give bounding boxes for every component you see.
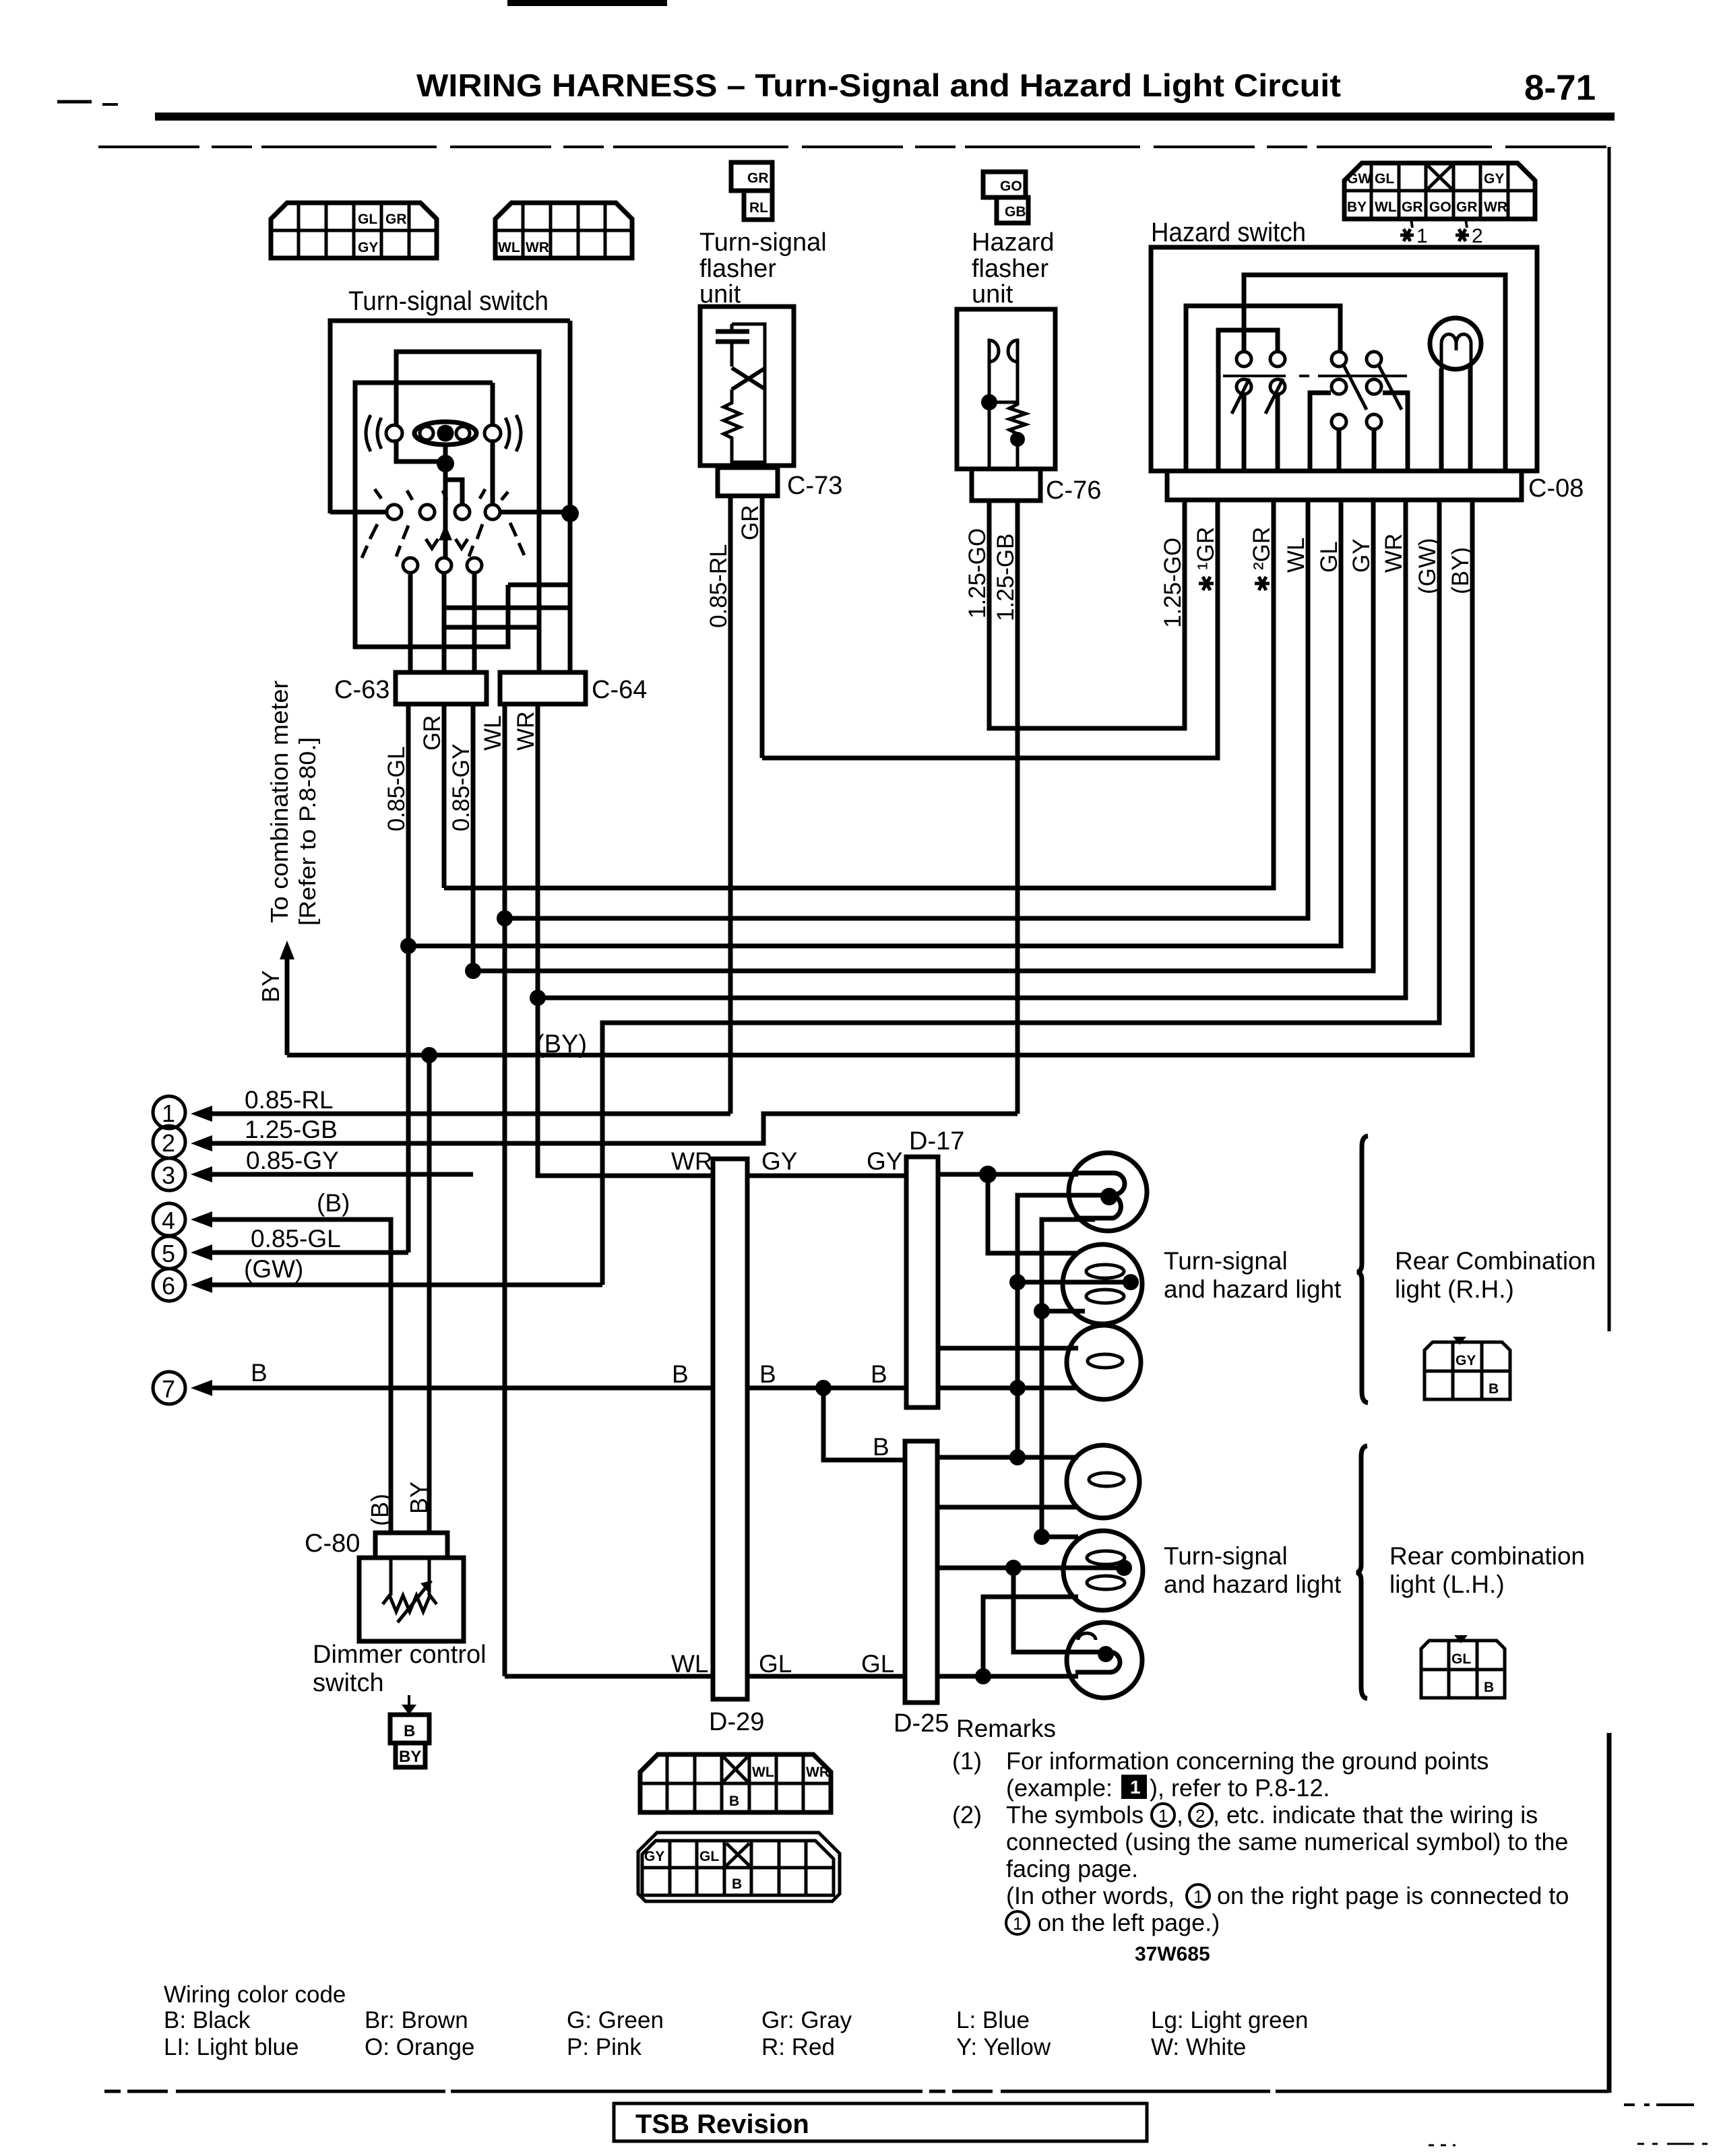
svg-text:(BY): (BY) — [536, 1030, 587, 1058]
node bulb4 chain — [1009, 1449, 1026, 1465]
diagram bottom dashed border — [104, 2090, 1609, 2093]
svg-text:GY: GY — [644, 1849, 664, 1864]
dimmer rheostat — [383, 1558, 437, 1622]
label GR — [419, 716, 445, 751]
svg-text:Turn-signal: Turn-signal — [1164, 1247, 1288, 1275]
bulb3 rear RH bottom — [1067, 1325, 1141, 1399]
svg-text:Turn-signal: Turn-signal — [1164, 1542, 1288, 1570]
svg-text:L: Blue: L: Blue — [956, 2007, 1030, 2033]
svg-text:(GW): (GW) — [1414, 538, 1441, 594]
svg-text:GY: GY — [358, 240, 378, 255]
wire WR bus — [538, 500, 1406, 998]
wire GY corner to D-17 — [538, 998, 906, 1176]
connector C-76 — [972, 469, 1101, 505]
svg-text:GL: GL — [861, 1650, 894, 1678]
switch rotor oval — [414, 422, 476, 445]
wire 1.25-GB to node2 — [191, 1114, 1018, 1151]
node GY branch — [979, 1166, 997, 1183]
svg-text:4: 4 — [162, 1207, 175, 1234]
label 1.25-GO left — [964, 528, 991, 619]
hazard flasher unit box — [957, 309, 1055, 469]
svg-text:1: 1 — [1130, 1777, 1141, 1798]
svg-text:B: B — [1489, 1381, 1499, 1397]
svg-text:unit: unit — [972, 280, 1013, 309]
label (BY) mid — [536, 1030, 587, 1058]
svg-text:C-73: C-73 — [787, 472, 842, 500]
node 7 — [153, 1372, 185, 1404]
connector grid D-29 pinout — [640, 1754, 831, 1812]
dimmer control switch box — [359, 1558, 464, 1641]
node bulb5 mid chain — [1005, 1560, 1022, 1576]
label rear combination RH — [1395, 1247, 1596, 1303]
label B node7 — [251, 1359, 268, 1387]
wire left rotor contact jog — [396, 439, 438, 462]
label GL right d29 — [759, 1650, 792, 1678]
svg-text:P: Pink: P: Pink — [567, 2034, 642, 2060]
label refer to p8-80 — [295, 737, 321, 926]
label GY c08 — [1348, 538, 1375, 573]
svg-text:(B): (B) — [366, 1494, 394, 1526]
wire 0.85-RL to node1 — [191, 1106, 730, 1122]
wire GY branch to bulb2 — [988, 1174, 1078, 1253]
wire B to node4 — [191, 1211, 391, 1533]
pin *1 leader — [1400, 219, 1428, 247]
connector grid C-64 pinout — [495, 203, 632, 258]
page number 8-71 — [1524, 68, 1596, 108]
hazard linkage dash line — [1223, 375, 1407, 377]
svg-text:(2): (2) — [952, 1801, 982, 1829]
svg-text:and hazard light: and hazard light — [1164, 1275, 1342, 1303]
svg-text:B: B — [729, 1794, 739, 1809]
svg-text:Rear Combination: Rear Combination — [1395, 1247, 1596, 1275]
flasher capacitor C — [716, 324, 749, 367]
wire 0.85-RL from C-73 — [728, 496, 733, 1114]
svg-text:6: 6 — [162, 1272, 175, 1300]
wire B to node7 — [191, 1380, 906, 1396]
connector grid RH light — [1425, 1337, 1510, 1399]
label WL c08 — [1283, 538, 1309, 573]
hazard flasher contact symbol — [989, 340, 1018, 362]
svg-text:facing page.: facing page. — [1006, 1855, 1138, 1882]
node 6 — [153, 1269, 185, 1301]
wire BY riser with arrow — [280, 941, 294, 1055]
label turn-signal and hazard light LH — [1164, 1542, 1342, 1598]
bulb2 rear RH mid — [1063, 1244, 1142, 1324]
svg-text:0.85-RL: 0.85-RL — [706, 544, 732, 628]
wire bulb4 low feed — [937, 1505, 1078, 1510]
svg-text:WIRING HARNESS – Turn-Signal a: WIRING HARNESS – Turn-Signal and Hazard … — [416, 67, 1341, 103]
svg-text:B: B — [732, 1876, 742, 1892]
svg-text:, etc. indicate that the wirin: , etc. indicate that the wiring is — [1213, 1801, 1538, 1829]
svg-text:G: Green: G: Green — [567, 2007, 664, 2033]
pin *2 leader — [1456, 219, 1483, 247]
wire 0.85-GY from C-63 — [471, 704, 476, 971]
wire GL bus — [408, 500, 1341, 946]
svg-text:[Refer to P.8-80.]: [Refer to P.8-80.] — [295, 737, 321, 926]
svg-text:GR: GR — [385, 212, 407, 227]
TSB revision box — [614, 2103, 1147, 2141]
label BY dimmer — [405, 1482, 433, 1514]
node WL bus — [497, 910, 513, 926]
svg-text:Dimmer control: Dimmer control — [313, 1641, 487, 1669]
node B ground chain — [1009, 1380, 1026, 1396]
label 0.85-GL node5 — [251, 1225, 341, 1253]
wire 1.25-GB from C-76 — [1015, 501, 1020, 1114]
svg-text:(B): (B) — [317, 1189, 350, 1217]
node GY bus — [465, 963, 481, 979]
wire cross link y868 — [508, 583, 570, 588]
svg-text:WL: WL — [752, 1765, 774, 1780]
node 1 — [153, 1096, 185, 1129]
label 1.25-GB left — [993, 534, 1019, 621]
svg-text:(In other words,: (In other words, — [1006, 1882, 1175, 1909]
svg-text:switch: switch — [313, 1669, 384, 1697]
node BY to dimmer — [421, 1047, 437, 1063]
svg-text:2: 2 — [1472, 225, 1483, 247]
svg-text:GR: GR — [747, 170, 769, 186]
label 0.85-RL node1 — [245, 1086, 334, 1114]
label WR c08 — [1381, 534, 1407, 573]
node hazard flasher lower — [1010, 432, 1025, 447]
svg-text:B: B — [873, 1433, 889, 1461]
wire GR from C-73 — [760, 496, 765, 758]
bulb6 rear LH bottom — [1067, 1622, 1142, 1698]
label GL left d25 — [861, 1650, 894, 1678]
svg-text:Y: Yellow: Y: Yellow — [956, 2034, 1051, 2060]
svg-text:C-80: C-80 — [305, 1529, 360, 1558]
connector D-25 bar — [894, 1441, 949, 1738]
wire WL into D-29 — [505, 1674, 905, 1679]
svg-text:B: B — [759, 1360, 776, 1388]
hazard right contacts — [1332, 352, 1381, 429]
hazard feed rail upper — [1244, 275, 1505, 471]
svg-text:GL: GL — [759, 1650, 792, 1678]
connector grid LH light — [1421, 1635, 1505, 1698]
svg-text:Br: Brown: Br: Brown — [365, 2007, 468, 2033]
remarks item 1 — [952, 1747, 1489, 1802]
title text — [416, 67, 1341, 103]
connector grid C-08 pinout — [1344, 163, 1535, 219]
wire bulb5 mid feed — [937, 1566, 1120, 1571]
hazard switch box — [1151, 247, 1537, 471]
svg-text:Rear combination: Rear combination — [1389, 1542, 1585, 1570]
bulb1 rear RH top — [1069, 1153, 1147, 1231]
svg-text:BY: BY — [257, 970, 284, 1003]
label (GW) node6 — [244, 1255, 303, 1283]
turn-signal switch inner box 2 — [355, 383, 508, 647]
svg-text:and hazard light: and hazard light — [1164, 1571, 1342, 1598]
svg-text:(example:: (example: — [1006, 1774, 1113, 1802]
svg-text:GL: GL — [1375, 171, 1394, 187]
svg-text:B: B — [871, 1360, 887, 1388]
page edge fragment top — [507, 0, 667, 6]
svg-text:W: White: W: White — [1151, 2034, 1246, 2060]
turn-signal switch outer box — [330, 321, 570, 513]
svg-text:connected (using the same nume: connected (using the same numerical symb… — [1006, 1828, 1568, 1856]
svg-text:WR: WR — [513, 711, 539, 751]
connector GO/GB pinout — [983, 172, 1028, 223]
svg-text:0.85-GL: 0.85-GL — [251, 1225, 341, 1253]
svg-text:1: 1 — [1013, 1913, 1022, 1934]
wire bulb5 low link — [983, 1597, 1078, 1676]
figure number 37W685 — [1135, 1943, 1210, 1965]
svg-text:(1): (1) — [952, 1747, 982, 1775]
rotor outer contact left — [366, 415, 402, 451]
label GY left d17 — [867, 1147, 902, 1175]
label WL d29 — [671, 1650, 709, 1678]
node 5 — [153, 1236, 185, 1269]
svg-text:flasher: flasher — [972, 255, 1049, 283]
svg-text:2: 2 — [1195, 1806, 1205, 1826]
wire GY bus — [473, 500, 1373, 971]
svg-text:GL: GL — [358, 212, 377, 227]
svg-text:GL: GL — [1316, 541, 1342, 573]
svg-text:BY: BY — [399, 1748, 421, 1766]
ground connector B — [390, 1715, 429, 1743]
wire bulb1 mid feed — [1018, 1195, 1105, 1457]
svg-text:TSB Revision: TSB Revision — [635, 2110, 809, 2139]
title rule — [155, 113, 1615, 121]
label WR d29 — [671, 1147, 713, 1175]
wire bulb2 low feed — [1042, 1309, 1085, 1314]
svg-text:Turn-signal switch: Turn-signal switch — [348, 286, 549, 316]
svg-text:Gr: Gray: Gr: Gray — [761, 2007, 852, 2033]
svg-text:For information concerning the: For information concerning the ground po… — [1006, 1747, 1489, 1775]
svg-text:0.85-GY: 0.85-GY — [246, 1147, 339, 1174]
bottom-right stray dashes — [1429, 2105, 1712, 2145]
top contact row circles — [387, 505, 500, 519]
svg-text:light (L.H.): light (L.H.) — [1389, 1571, 1505, 1598]
label rear combination LH — [1389, 1542, 1585, 1598]
wire GY D-17 to bulbs — [906, 1172, 1078, 1177]
svg-text:O: Orange: O: Orange — [365, 2034, 474, 2060]
bottom contact row circles — [403, 558, 482, 573]
wire arrow on rotor stem — [439, 524, 452, 540]
wire rotor right to contact4 — [491, 439, 495, 505]
connector GR/RL flasher pinout — [731, 162, 772, 220]
node 3 — [153, 1158, 185, 1191]
svg-text:7: 7 — [162, 1375, 175, 1403]
turn-signal switch label — [348, 286, 549, 316]
label BY c08 — [1447, 547, 1474, 594]
label WL — [480, 716, 506, 751]
svg-text:Hazard: Hazard — [972, 228, 1055, 257]
connector C-64 — [500, 672, 647, 704]
connector D-29 bar — [709, 1159, 764, 1736]
svg-text:R: Red: R: Red — [761, 2034, 835, 2060]
svg-text:on the left page.): on the left page.) — [1038, 1909, 1220, 1936]
hazard flasher unit label — [972, 228, 1055, 309]
svg-text:B: B — [672, 1360, 689, 1388]
bulb5 rear LH mid — [1063, 1531, 1143, 1610]
svg-text:D-25: D-25 — [894, 1709, 949, 1738]
svg-text:1.25-GO: 1.25-GO — [1160, 538, 1186, 628]
svg-text:1.25-GB: 1.25-GB — [993, 534, 1019, 621]
label turn-signal and hazard light RH — [1164, 1247, 1342, 1303]
diagram right border upper — [1608, 147, 1611, 1331]
label *2 GR — [1249, 527, 1275, 590]
node 2 — [153, 1126, 185, 1158]
wire 0.85-GL to node5 — [191, 1244, 408, 1261]
wire B down to D-25 — [823, 1388, 905, 1460]
wire 0.85-GL from C-63 — [406, 704, 411, 945]
svg-text:RL: RL — [749, 200, 768, 216]
svg-text:Turn-signal: Turn-signal — [699, 228, 827, 257]
bracket RH — [1357, 1136, 1368, 1403]
wire contact7 down — [472, 573, 477, 671]
svg-text:GR: GR — [737, 505, 763, 541]
svg-text:WL: WL — [1375, 199, 1397, 215]
connector grid D-25 pinout — [638, 1833, 840, 1901]
label BY riser — [257, 970, 284, 1003]
color code row 1 — [164, 2007, 1309, 2033]
wire right rotor contact drop — [491, 383, 495, 425]
label 1.25-GB node2 — [245, 1116, 338, 1143]
label B right d29 — [759, 1360, 776, 1388]
label B left d29 — [672, 1360, 689, 1388]
node bulb2 mid chain — [1009, 1274, 1026, 1290]
svg-text:8-71: 8-71 — [1524, 68, 1596, 108]
turn-signal flasher unit box — [700, 307, 794, 466]
svg-text:C-08: C-08 — [1528, 474, 1584, 503]
wiring color code heading — [164, 1981, 346, 2008]
flasher inner loop — [732, 324, 765, 462]
svg-text:B: B — [251, 1359, 268, 1387]
bracket LH — [1356, 1446, 1367, 1699]
wire *1 GR — [762, 500, 1218, 758]
svg-text:GY: GY — [1456, 1353, 1476, 1368]
svg-text:GL: GL — [699, 1849, 719, 1864]
svg-text:LI: Light blue: LI: Light blue — [164, 2034, 299, 2060]
svg-text:GW: GW — [1347, 171, 1371, 187]
label 0.85-RL — [706, 544, 732, 628]
remarks heading — [956, 1715, 1056, 1742]
ground marker arrow — [402, 1695, 416, 1715]
turn-signal switch inner box 1 — [396, 352, 539, 671]
svg-text:GB: GB — [1005, 204, 1026, 220]
svg-text:0.85-GY: 0.85-GY — [448, 744, 474, 831]
wire GW to node6 — [191, 1277, 602, 1293]
connector C-80 — [305, 1529, 447, 1558]
node bulb2 low chain — [1034, 1303, 1050, 1319]
svg-text:0.85-RL: 0.85-RL — [245, 1086, 334, 1114]
svg-text:C-76: C-76 — [1046, 476, 1101, 505]
wire bulb1 low feed — [1042, 1219, 1095, 1537]
label B d25 — [873, 1433, 889, 1461]
wire BY down to dimmer — [427, 1055, 432, 1533]
svg-text:BY: BY — [405, 1482, 433, 1514]
svg-text:B: B — [1484, 1680, 1494, 1695]
svg-text:GR: GR — [1402, 199, 1423, 215]
svg-text:3: 3 — [162, 1162, 175, 1189]
svg-text:), refer to P.8-12.: ), refer to P.8-12. — [1150, 1774, 1329, 1802]
svg-text:1: 1 — [1416, 225, 1428, 247]
hazard flasher resistor — [1009, 362, 1026, 469]
svg-text:¹GR: ¹GR — [1193, 527, 1219, 570]
svg-text:B: Black: B: Black — [164, 2007, 251, 2033]
contact blade dashes — [362, 489, 524, 558]
bulb4 rear LH top — [1067, 1445, 1139, 1518]
svg-text:GY: GY — [1348, 538, 1375, 573]
svg-text:GO: GO — [1429, 199, 1451, 215]
wire B d25 to bulb4 — [937, 1455, 1078, 1460]
svg-text:D-29: D-29 — [709, 1708, 764, 1736]
svg-text:37W685: 37W685 — [1135, 1943, 1210, 1965]
label GR flasher — [737, 505, 763, 541]
svg-text:GY: GY — [1484, 171, 1504, 187]
wire GL d25 to bulb6 — [937, 1674, 1078, 1679]
svg-text:0.85-GL: 0.85-GL — [383, 747, 410, 831]
svg-text:Remarks: Remarks — [956, 1715, 1056, 1742]
wire junction to contact3 — [445, 464, 462, 504]
label B left d17 — [871, 1360, 887, 1388]
wire left feed to contact1 — [330, 510, 387, 515]
node hazard flasher — [981, 394, 997, 410]
svg-text:WR: WR — [806, 1765, 830, 1780]
svg-text:GO: GO — [1000, 179, 1022, 194]
wire 0.85-GY to node3 — [191, 1166, 473, 1182]
label (B) dimmer — [366, 1494, 394, 1526]
node right rail junction — [561, 505, 579, 522]
label 0.85-GY node3 — [246, 1147, 339, 1174]
wire cross link y902 — [444, 606, 570, 610]
label to combination meter — [265, 680, 293, 923]
wire bulb6 mid feed — [1013, 1568, 1098, 1652]
wire GW bus — [602, 500, 1439, 1285]
turn-signal flasher unit label — [699, 228, 827, 309]
svg-text:GY: GY — [867, 1147, 902, 1175]
svg-text:B: B — [404, 1722, 415, 1740]
svg-text:Hazard switch: Hazard switch — [1151, 218, 1306, 247]
svg-text:Wiring color code: Wiring color code — [164, 1981, 346, 2008]
svg-text:GY: GY — [761, 1147, 797, 1175]
label dimmer control switch — [313, 1641, 487, 1697]
hazard left pole frame — [1218, 330, 1278, 471]
wire WL from C-64 — [503, 704, 507, 1676]
top-left dash fragment — [57, 102, 118, 104]
label WR — [513, 711, 539, 751]
wire BY bus — [287, 500, 1472, 1055]
diagram right border lower — [1607, 1733, 1612, 2093]
wire 1.25-GO from C-08 — [1183, 500, 1187, 728]
label 0.85-GL — [383, 747, 410, 831]
svg-text:C-64: C-64 — [592, 676, 647, 704]
label GL c08 — [1316, 541, 1342, 573]
connector D-17 bar — [906, 1127, 964, 1407]
svg-text:Lg: Light green: Lg: Light green — [1151, 2007, 1309, 2033]
svg-text:WR: WR — [1484, 199, 1507, 215]
svg-text:on the right page is connected: on the right page is connected to — [1217, 1882, 1569, 1909]
svg-text:WL: WL — [498, 240, 520, 255]
svg-text:5: 5 — [162, 1240, 175, 1267]
svg-text:WR: WR — [671, 1147, 713, 1175]
hazard flasher left lead — [988, 362, 991, 469]
node bulb5 top chain — [1034, 1529, 1050, 1545]
hazard flasher bridge — [989, 401, 1018, 404]
remarks item 2 — [952, 1801, 1569, 1936]
wire GR from C-63 — [442, 704, 447, 888]
wire bulb2 mid feed — [1018, 1280, 1127, 1285]
svg-text:1.25-GB: 1.25-GB — [245, 1116, 338, 1143]
color code row 2 — [164, 2034, 1246, 2060]
svg-text:(BY): (BY) — [1447, 547, 1474, 594]
node WR bus — [530, 990, 546, 1006]
wire cross link y931 — [446, 625, 539, 630]
svg-text:(GW): (GW) — [244, 1255, 303, 1283]
wire WR from C-64 — [536, 704, 540, 1176]
label (B) node4 — [317, 1189, 350, 1217]
svg-text:flasher: flasher — [699, 255, 776, 283]
